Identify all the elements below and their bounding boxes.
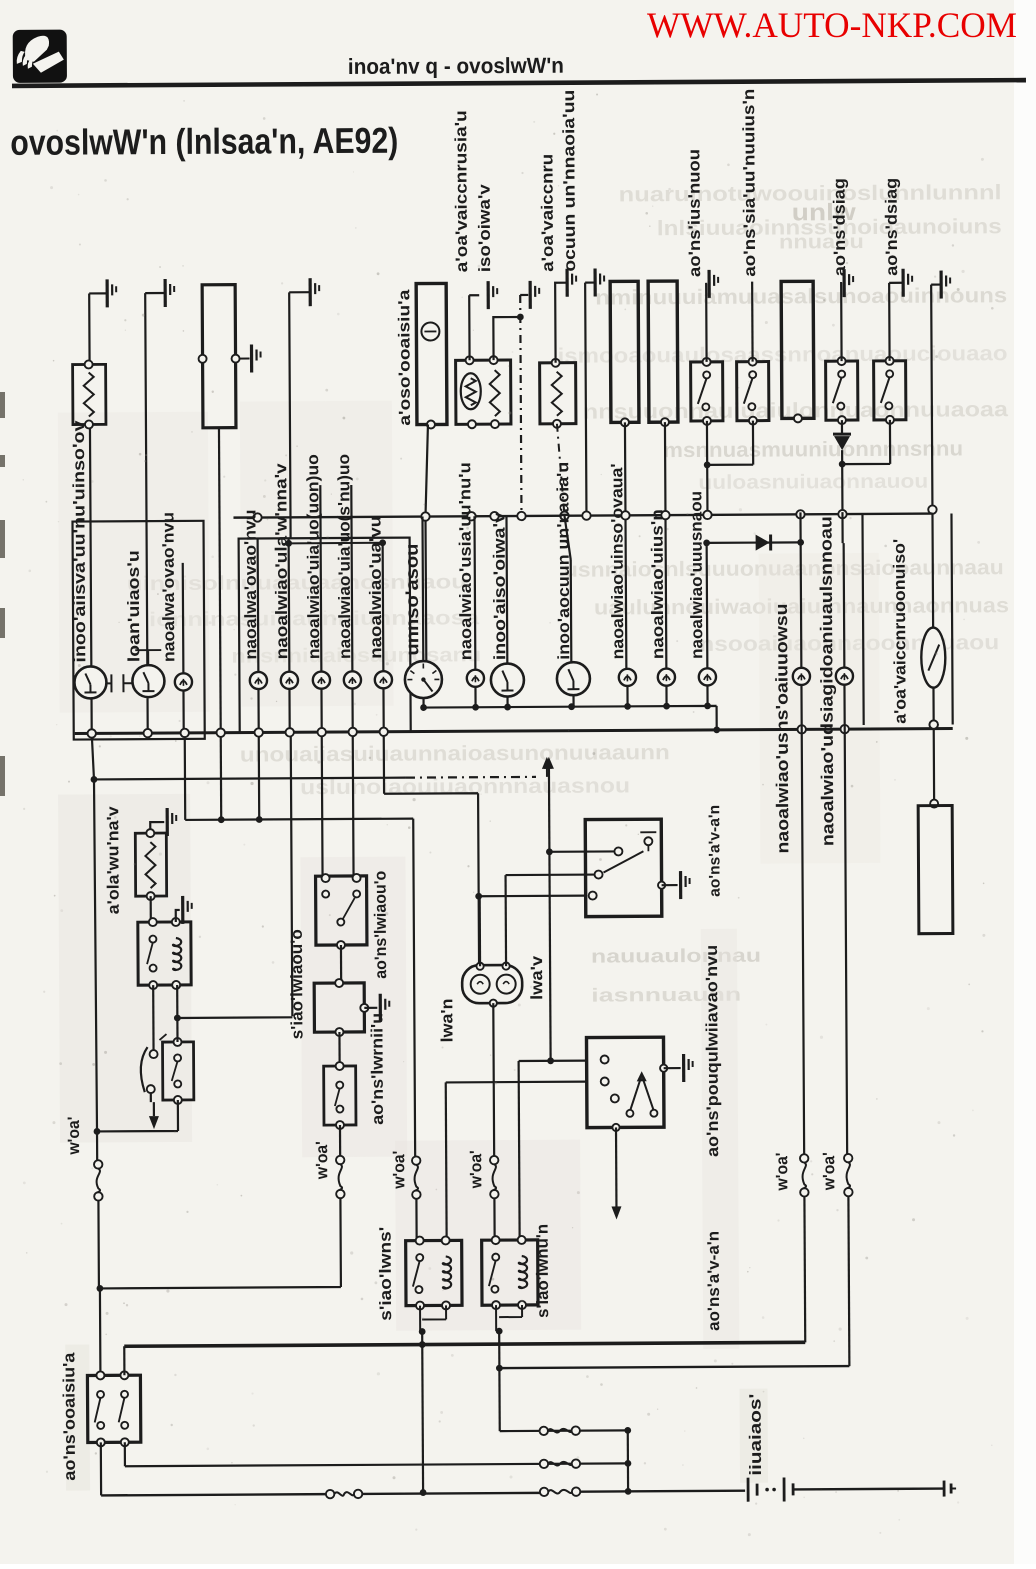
svg-text:a'oa'vaiccnruoonuiso': a'oa'vaiccnruoonuiso' xyxy=(891,539,910,724)
svg-text:a'ola'wu'na'v: a'ola'wu'na'v xyxy=(104,805,123,914)
svg-text:w'oa': w'oa' xyxy=(773,1152,791,1191)
svg-text:lwa'n: lwa'n xyxy=(438,998,456,1042)
svg-text:iiuaiaos': iiuaiaos' xyxy=(747,1394,765,1476)
svg-text:inoo'aocuun un'naoia'u: inoo'aocuun un'naoia'u xyxy=(554,462,573,660)
svg-text:naoalwiao'uius'n: naoalwiao'uius'n xyxy=(648,509,667,659)
svg-text:uuloasnuiuaonnauou: uuloasnuiuaonnauou xyxy=(698,471,928,494)
svg-text:ao'ns'sia'uu'nuuius'n: ao'ns'sia'uu'nuuius'n xyxy=(740,89,759,277)
svg-text:w'oa': w'oa' xyxy=(65,1116,83,1155)
svg-text:inoo'aiso'oiwa'v: inoo'aiso'oiwa'v xyxy=(490,511,509,660)
svg-text:ao'ns'ius'nuou: ao'ns'ius'nuou xyxy=(685,149,704,277)
svg-text:unnso'asou: unnso'asou xyxy=(402,544,423,656)
svg-text:w'oa': w'oa' xyxy=(313,1141,331,1180)
svg-text:s'iao'lwnu'n: s'iao'lwnu'n xyxy=(534,1224,553,1318)
svg-text:ao'ns'a'v-a'n: ao'ns'a'v-a'n xyxy=(706,805,724,897)
svg-text:a'oa'vaiccnrusia'u: a'oa'vaiccnrusia'u xyxy=(452,110,471,272)
svg-text:nminuuuiamuuasalsunoaouinnouns: nminuuuiamuuasalsunoaouinnouns xyxy=(595,284,1007,309)
svg-text:WWW.AUTO-NKP.COM: WWW.AUTO-NKP.COM xyxy=(647,5,1017,45)
svg-text:naoalwa'ovao'nvu: naoalwa'ovao'nvu xyxy=(159,512,178,662)
svg-text:naoalwiao'uuusnaou: naoalwiao'uuusnaou xyxy=(687,491,706,659)
svg-text:ao'ns'ooaisiu'a: ao'ns'ooaisiu'a xyxy=(60,1352,79,1481)
svg-text:naoalwiao'ula'w'nna'v: naoalwiao'ula'w'nna'v xyxy=(272,462,291,659)
svg-text:iso'oiwa'v: iso'oiwa'v xyxy=(476,183,495,272)
svg-text:lwa'v: lwa'v xyxy=(528,955,546,1000)
svg-text:inoa'nv q - ovoslwW'n: inoa'nv q - ovoslwW'n xyxy=(348,53,564,79)
svg-text:naoalwiao'usns'oaiuuowsu: naoalwiao'usns'oaiuuowsu xyxy=(772,603,792,853)
svg-text:loan'uiaos'u: loan'uiaos'u xyxy=(125,550,144,662)
svg-text:unouaiiasuiuaunnaioasunonuuaau: unouaiiasuiuaunnaioasunonuuaaunn xyxy=(240,741,670,766)
svg-text:naoalwiao'uinso'ovaua': naoalwiao'uinso'ovaua' xyxy=(608,463,627,659)
svg-text:naoalwiao'uia'uo(s'nu)uo: naoalwiao'uia'uo(s'nu)uo xyxy=(335,454,354,659)
svg-text:naoalwiao'usia'uu'nu'u: naoalwiao'usia'uu'nu'u xyxy=(456,462,475,660)
svg-text:ao'ns'dsiag: ao'ns'dsiag xyxy=(883,178,902,276)
svg-text:ao'ns'pouqulwiiavao'nvu: ao'ns'pouqulwiiavao'nvu xyxy=(703,945,722,1157)
svg-text:ao'ns'lwiaou'o: ao'ns'lwiaou'o xyxy=(372,871,391,979)
svg-text:w'oa': w'oa' xyxy=(467,1150,485,1189)
svg-text:a'oso'ooaisiu'a: a'oso'ooaisiu'a xyxy=(396,289,414,425)
svg-text:ao'ns'lwrnii'u: ao'ns'lwrnii'u xyxy=(368,1013,387,1125)
svg-text:s'iao'lwiaou'o: s'iao'lwiaou'o xyxy=(288,929,307,1039)
svg-text:naoalwiao'uia'uo(uon)uo: naoalwiao'uia'uo(uon)uo xyxy=(304,454,323,659)
svg-text:a'oa'vaiccnru: a'oa'vaiccnru xyxy=(538,154,557,272)
svg-text:ao'ns'dsiag: ao'ns'dsiag xyxy=(831,178,850,276)
svg-text:s'iao'lwns': s'iao'lwns' xyxy=(377,1227,396,1321)
svg-text:w'oa': w'oa' xyxy=(390,1151,408,1190)
svg-text:ao'ns'a'v-a'n: ao'ns'a'v-a'n xyxy=(705,1231,724,1331)
svg-text:ovoslwW'n (lnlsaa'n, AE92): ovoslwW'n (lnlsaa'n, AE92) xyxy=(10,120,398,163)
svg-text:naoalwa'ovao'nvu: naoalwa'ovao'nvu xyxy=(241,509,260,659)
svg-text:ocuun un'nnaoia'uu: ocuun un'nnaoia'uu xyxy=(560,90,579,272)
svg-text:inoo'aiisva'uu'nu'uinso'ov: inoo'aiisva'uu'nu'uinso'ov xyxy=(70,420,89,663)
svg-text:naoalwiao'ua'vu: naoalwiao'ua'vu xyxy=(366,516,385,659)
svg-text:nnuaou: nnuaou xyxy=(779,231,864,253)
svg-text:naoalwiao'udsiagidoaniuaulsnno: naoalwiao'udsiagidoaniuaulsnnoau xyxy=(816,516,837,846)
svg-text:w'oa': w'oa' xyxy=(820,1152,838,1191)
